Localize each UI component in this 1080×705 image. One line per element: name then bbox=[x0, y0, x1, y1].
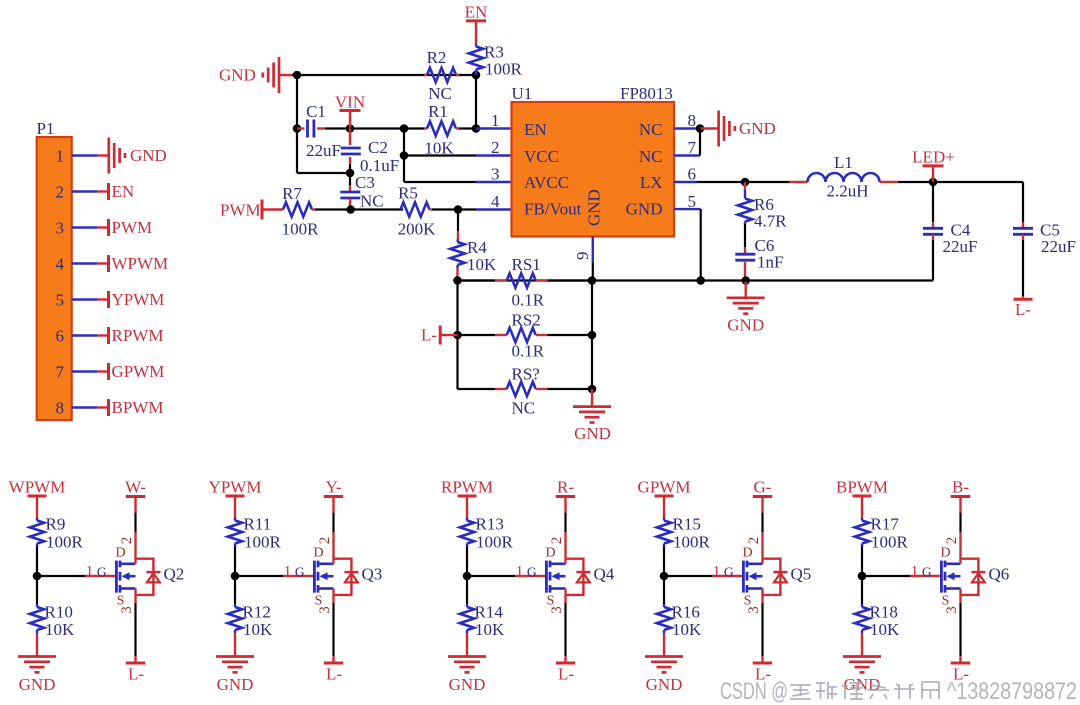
svg-text:2: 2 bbox=[746, 537, 762, 545]
svg-text:4: 4 bbox=[56, 255, 65, 274]
svg-text:S: S bbox=[942, 594, 950, 609]
svg-text:10K: 10K bbox=[870, 620, 900, 639]
svg-text:GND: GND bbox=[739, 119, 776, 138]
svg-text:8: 8 bbox=[688, 111, 697, 130]
svg-text:GPWM: GPWM bbox=[112, 362, 165, 381]
svg-text:3: 3 bbox=[549, 606, 565, 614]
svg-text:10K: 10K bbox=[243, 620, 273, 639]
svg-text:B-: B- bbox=[952, 478, 969, 497]
svg-text:10K: 10K bbox=[475, 620, 505, 639]
svg-text:D: D bbox=[545, 546, 555, 561]
svg-text:GND: GND bbox=[217, 675, 254, 694]
svg-text:S: S bbox=[117, 594, 125, 609]
svg-text:D: D bbox=[742, 546, 752, 561]
svg-text:R14: R14 bbox=[475, 603, 504, 622]
svg-text:R7: R7 bbox=[282, 184, 302, 203]
svg-text:R10: R10 bbox=[45, 603, 73, 622]
svg-text:FP8013: FP8013 bbox=[620, 84, 673, 103]
svg-text:GND: GND bbox=[626, 200, 663, 219]
svg-text:100R: 100R bbox=[46, 533, 84, 552]
svg-text:10K: 10K bbox=[45, 620, 75, 639]
svg-text:4.7R: 4.7R bbox=[754, 212, 787, 231]
svg-text:R5: R5 bbox=[398, 184, 418, 203]
svg-text:G-: G- bbox=[754, 478, 772, 497]
svg-text:R1: R1 bbox=[428, 102, 448, 121]
svg-text:U1: U1 bbox=[512, 84, 533, 103]
svg-text:4: 4 bbox=[491, 192, 500, 211]
svg-text:VCC: VCC bbox=[524, 147, 559, 166]
svg-text:R13: R13 bbox=[476, 515, 504, 534]
svg-text:D: D bbox=[940, 546, 950, 561]
svg-text:GND: GND bbox=[585, 189, 604, 226]
svg-text:R9: R9 bbox=[46, 515, 66, 534]
svg-text:NC: NC bbox=[512, 399, 536, 418]
svg-text:R17: R17 bbox=[871, 515, 900, 534]
svg-text:3: 3 bbox=[119, 606, 135, 614]
svg-text:100R: 100R bbox=[871, 533, 909, 552]
svg-text:LX: LX bbox=[640, 173, 663, 192]
svg-text:2.2uH: 2.2uH bbox=[826, 182, 868, 201]
svg-text:Q5: Q5 bbox=[791, 565, 812, 584]
svg-text:L-: L- bbox=[326, 665, 342, 684]
svg-text:NC: NC bbox=[639, 147, 663, 166]
svg-text:NC: NC bbox=[639, 120, 663, 139]
svg-text:2: 2 bbox=[944, 537, 960, 545]
svg-text:YPWM: YPWM bbox=[209, 478, 262, 497]
svg-text:PWM: PWM bbox=[112, 218, 153, 237]
svg-text:0.1R: 0.1R bbox=[512, 342, 545, 361]
svg-text:C3: C3 bbox=[355, 173, 375, 192]
svg-text:G: G bbox=[922, 565, 932, 580]
svg-text:22uF: 22uF bbox=[943, 237, 978, 256]
svg-text:EN: EN bbox=[112, 182, 135, 201]
svg-text:EN: EN bbox=[524, 120, 547, 139]
svg-text:LED+: LED+ bbox=[912, 148, 955, 167]
svg-text:D: D bbox=[313, 546, 323, 561]
svg-text:L-: L- bbox=[421, 326, 437, 345]
svg-text:NC: NC bbox=[428, 84, 452, 103]
svg-text:RPWM: RPWM bbox=[441, 478, 493, 497]
svg-text:CSDN @: CSDN @ bbox=[720, 678, 788, 705]
svg-text:Q3: Q3 bbox=[362, 565, 383, 584]
svg-text:EN: EN bbox=[465, 3, 488, 22]
svg-text:D: D bbox=[115, 546, 125, 561]
svg-text:1: 1 bbox=[284, 564, 292, 580]
svg-text:YPWM: YPWM bbox=[112, 290, 165, 309]
svg-text:1: 1 bbox=[911, 564, 919, 580]
svg-text:L-: L- bbox=[558, 665, 574, 684]
svg-text:R15: R15 bbox=[673, 515, 701, 534]
svg-text:6: 6 bbox=[688, 165, 697, 184]
svg-text:1: 1 bbox=[713, 564, 721, 580]
svg-text:22uF: 22uF bbox=[1041, 237, 1076, 256]
svg-text:100R: 100R bbox=[485, 60, 523, 79]
svg-text:100R: 100R bbox=[476, 533, 514, 552]
svg-text:6: 6 bbox=[56, 327, 65, 346]
svg-text:S: S bbox=[744, 594, 752, 609]
svg-text:S: S bbox=[547, 594, 555, 609]
svg-text:200K: 200K bbox=[398, 220, 437, 239]
svg-text:2: 2 bbox=[549, 537, 565, 545]
svg-text:3: 3 bbox=[746, 606, 762, 614]
svg-text:100R: 100R bbox=[244, 533, 282, 552]
svg-text:1: 1 bbox=[56, 147, 65, 166]
svg-text:VIN: VIN bbox=[335, 93, 365, 112]
svg-text:Q2: Q2 bbox=[164, 565, 185, 584]
svg-text:C2: C2 bbox=[368, 138, 388, 157]
svg-text:Q6: Q6 bbox=[989, 565, 1010, 584]
svg-text:1: 1 bbox=[86, 564, 94, 580]
svg-text:10K: 10K bbox=[672, 620, 702, 639]
svg-text:GPWM: GPWM bbox=[638, 478, 691, 497]
svg-text:R18: R18 bbox=[870, 603, 898, 622]
svg-text:3: 3 bbox=[944, 606, 960, 614]
svg-text:5: 5 bbox=[56, 291, 65, 310]
svg-text:RS1: RS1 bbox=[512, 255, 541, 274]
svg-text:WPWM: WPWM bbox=[112, 254, 169, 273]
svg-text:0.1R: 0.1R bbox=[512, 291, 545, 310]
svg-text:R11: R11 bbox=[244, 515, 272, 534]
svg-text:WPWM: WPWM bbox=[9, 478, 66, 497]
svg-text:G: G bbox=[295, 565, 305, 580]
svg-text:G: G bbox=[724, 565, 734, 580]
svg-text:8: 8 bbox=[56, 399, 65, 418]
svg-text:2: 2 bbox=[119, 537, 135, 545]
svg-text:Q4: Q4 bbox=[594, 565, 615, 584]
svg-text:22uF: 22uF bbox=[306, 141, 341, 160]
svg-text:FB/Vout: FB/Vout bbox=[524, 200, 582, 219]
svg-text:3: 3 bbox=[317, 606, 333, 614]
svg-text:2: 2 bbox=[317, 537, 333, 545]
svg-text:RS2: RS2 bbox=[512, 311, 541, 330]
svg-text:3: 3 bbox=[491, 165, 500, 184]
svg-text:PWM: PWM bbox=[220, 201, 261, 220]
svg-text:BPWM: BPWM bbox=[836, 478, 888, 497]
svg-text:NC: NC bbox=[360, 192, 384, 211]
svg-text:G: G bbox=[527, 565, 537, 580]
svg-text:C1: C1 bbox=[306, 102, 326, 121]
svg-text:1: 1 bbox=[491, 111, 500, 130]
svg-text:R16: R16 bbox=[672, 603, 700, 622]
svg-text:GND: GND bbox=[727, 316, 764, 335]
svg-text:Y-: Y- bbox=[325, 478, 341, 497]
svg-text:2: 2 bbox=[491, 138, 500, 157]
svg-text:1: 1 bbox=[516, 564, 524, 580]
svg-text:L1: L1 bbox=[834, 153, 853, 172]
svg-text:GND: GND bbox=[130, 146, 167, 165]
svg-text:GND: GND bbox=[574, 424, 611, 443]
svg-text:GND: GND bbox=[844, 675, 881, 694]
svg-text:^13828798872: ^13828798872 bbox=[947, 678, 1077, 705]
svg-text:R2: R2 bbox=[427, 48, 447, 67]
svg-text:P1: P1 bbox=[37, 119, 55, 138]
svg-text:BPWM: BPWM bbox=[112, 398, 164, 417]
svg-text:GND: GND bbox=[219, 66, 256, 85]
svg-text:L-: L- bbox=[128, 665, 144, 684]
svg-text:R-: R- bbox=[557, 478, 574, 497]
svg-text:RPWM: RPWM bbox=[112, 326, 164, 345]
svg-text:RS?: RS? bbox=[512, 365, 540, 384]
svg-text:2: 2 bbox=[56, 183, 65, 202]
svg-text:R12: R12 bbox=[243, 603, 271, 622]
svg-text:100R: 100R bbox=[673, 533, 711, 552]
svg-text:GND: GND bbox=[19, 675, 56, 694]
svg-text:1nF: 1nF bbox=[757, 253, 783, 272]
svg-text:3: 3 bbox=[56, 219, 65, 238]
svg-text:L-: L- bbox=[1015, 300, 1031, 319]
svg-text:S: S bbox=[315, 594, 323, 609]
svg-text:GND: GND bbox=[646, 675, 683, 694]
svg-text:G: G bbox=[97, 565, 107, 580]
svg-text:AVCC: AVCC bbox=[524, 173, 569, 192]
svg-text:W-: W- bbox=[125, 478, 146, 497]
svg-text:10K: 10K bbox=[467, 255, 497, 274]
svg-text:9: 9 bbox=[573, 252, 592, 261]
svg-text:100R: 100R bbox=[282, 220, 320, 239]
svg-text:GND: GND bbox=[449, 675, 486, 694]
svg-text:7: 7 bbox=[56, 363, 65, 382]
svg-text:7: 7 bbox=[688, 138, 697, 157]
